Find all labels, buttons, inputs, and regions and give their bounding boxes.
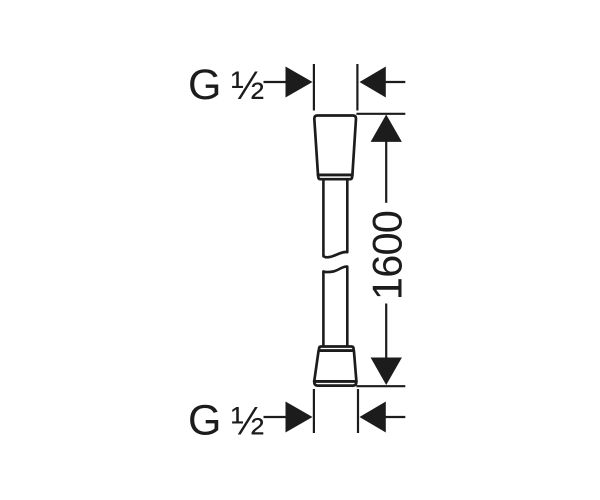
arrow left-pointing top [360,67,386,98]
arrow up dimension [371,115,402,142]
arrow right-pointing bottom [286,402,313,433]
extension line bottom-left [313,389,315,433]
svg-text:G½: G½ [188,397,264,445]
dimension line top horizontal [356,113,405,115]
fitting cone bottom [314,347,356,386]
extension line bottom-right [357,389,359,433]
arrow left-pointing bottom [360,402,386,433]
fitting cone top [314,116,356,180]
extension line top-left [313,64,315,111]
dimension line bottom horizontal [356,385,405,387]
wire tail line top-right [385,81,405,83]
svg-text:1600: 1600 [364,211,411,300]
wire dimension vertical lower [385,304,387,360]
wire leader line top-left [264,81,287,83]
extension line top-right [356,64,358,111]
wire leader line bottom-left [264,416,287,418]
arrow down dimension [371,358,402,386]
hose segment lower [323,267,347,346]
wire tail line bottom-right [385,416,405,418]
arrow right-pointing top [286,67,313,98]
hose segment upper [323,179,347,257]
wire dimension vertical upper [385,140,387,203]
svg-text:G½: G½ [188,61,264,109]
